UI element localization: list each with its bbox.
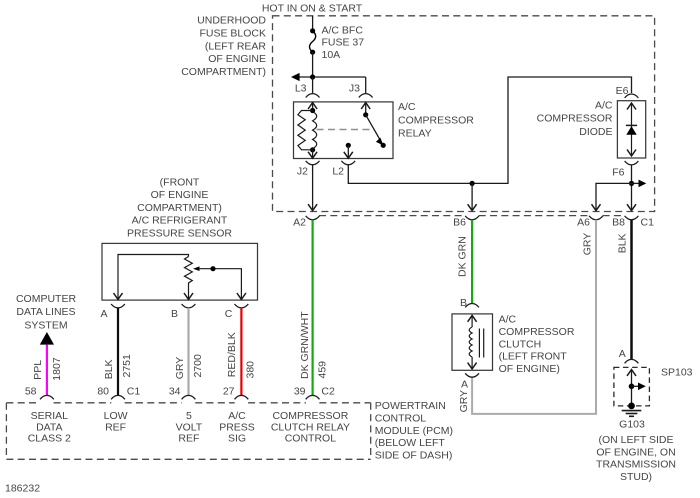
svg-text:(LEFT FRONT: (LEFT FRONT <box>499 351 568 363</box>
svg-text:COMPUTER: COMPUTER <box>16 293 77 305</box>
svg-text:PRESSURE SENSOR: PRESSURE SENSOR <box>127 228 232 240</box>
svg-text:COMPRESSOR: COMPRESSOR <box>272 410 348 422</box>
terminal 27 <box>235 395 249 399</box>
svg-text:A6: A6 <box>577 217 590 229</box>
relay switch arrow up to J3 <box>365 103 367 115</box>
relay coil arrow down to J2 <box>312 150 314 158</box>
wire L2 to diode E6 loop <box>348 77 631 183</box>
svg-text:PRESS: PRESS <box>219 421 255 433</box>
svg-text:10A: 10A <box>322 49 341 61</box>
svg-text:DATA: DATA <box>36 421 62 433</box>
relay U1 box <box>294 102 394 159</box>
svg-text:B6: B6 <box>453 217 466 229</box>
svg-text:B8: B8 <box>612 217 625 229</box>
svg-text:CLUTCH: CLUTCH <box>499 338 542 350</box>
arrow to computer data lines system <box>40 332 54 345</box>
wire from hot feed to fuse <box>312 16 314 31</box>
svg-text:CONTROL: CONTROL <box>285 433 336 445</box>
svg-text:PPL: PPL <box>32 360 44 380</box>
arrow to other circuits (left) <box>291 73 300 81</box>
svg-text:C1: C1 <box>641 217 655 229</box>
svg-text:FUSE 37: FUSE 37 <box>322 37 365 49</box>
svg-text:OF ENGINE: OF ENGINE <box>151 189 209 201</box>
wire GRY A6 to clutch A <box>472 220 596 414</box>
svg-text:A/C: A/C <box>228 410 246 422</box>
svg-text:E6: E6 <box>616 85 629 97</box>
wire down to B6 <box>471 183 473 209</box>
relay label A/C COMPRESSOR RELAY <box>398 101 474 140</box>
PCM pin function labels <box>28 410 350 445</box>
diode internal symbol <box>626 103 637 156</box>
svg-text:B: B <box>171 308 178 320</box>
wire down to L3 <box>312 77 314 93</box>
node junction dot below F6 <box>629 181 634 186</box>
terminal A of sensor <box>111 304 125 308</box>
svg-text:SIDE OF DASH): SIDE OF DASH) <box>375 450 453 462</box>
terminal A of splice <box>625 359 639 363</box>
svg-text:CLASS 2: CLASS 2 <box>28 433 71 445</box>
svg-text:COMPRESSOR: COMPRESSOR <box>499 326 575 338</box>
terminal E6 <box>625 94 639 98</box>
svg-text:COMPRESSOR: COMPRESSOR <box>398 114 474 126</box>
terminal J3 <box>359 94 373 98</box>
svg-text:COMPARTMENT): COMPARTMENT) <box>181 66 266 78</box>
svg-text:LOW: LOW <box>104 410 128 422</box>
relay switch blade <box>363 112 368 117</box>
svg-text:RED/BLK: RED/BLK <box>226 332 238 377</box>
svg-text:POWERTRAIN: POWERTRAIN <box>375 400 446 412</box>
svg-text:(LEFT REAR: (LEFT REAR <box>205 40 266 52</box>
relay coil arrow up to L3 <box>312 103 314 111</box>
svg-text:459: 459 <box>317 361 329 379</box>
svg-text:B: B <box>460 297 467 309</box>
svg-text:A/C: A/C <box>595 99 613 111</box>
terminal 80 C1 <box>111 395 125 399</box>
svg-text:FUSE BLOCK: FUSE BLOCK <box>199 28 266 40</box>
svg-text:BLK: BLK <box>616 233 628 253</box>
terminal 58 <box>40 395 54 399</box>
svg-text:C1: C1 <box>127 385 141 397</box>
svg-text:34: 34 <box>169 385 181 397</box>
node junction dot above L3 <box>310 74 315 79</box>
terminal C of sensor <box>235 304 249 308</box>
svg-text:A: A <box>619 348 626 360</box>
svg-text:5: 5 <box>186 410 192 422</box>
diode label A/C COMPRESSOR DIODE <box>537 99 613 138</box>
terminal A2 <box>306 216 320 220</box>
svg-text:A/C: A/C <box>398 101 416 113</box>
wire PPL 1807 to PCM 58 <box>46 345 48 396</box>
svg-text:39: 39 <box>294 385 306 397</box>
svg-text:1807: 1807 <box>51 357 63 381</box>
fuse F37 A/C BFC 10A <box>310 28 316 55</box>
svg-text:RELAY: RELAY <box>398 128 432 140</box>
terminal B6 <box>465 216 479 220</box>
svg-text:DK GRN/WHT: DK GRN/WHT <box>299 311 311 379</box>
svg-text:A2: A2 <box>293 217 306 229</box>
svg-text:OF ENGINE): OF ENGINE) <box>499 363 560 375</box>
svg-text:L3: L3 <box>295 82 307 94</box>
svg-text:J3: J3 <box>349 82 360 94</box>
svg-text:UNDERHOOD: UNDERHOOD <box>197 15 266 27</box>
svg-text:L2: L2 <box>332 166 344 178</box>
svg-text:2751: 2751 <box>121 354 133 378</box>
svg-text:CONTROL: CONTROL <box>375 412 426 424</box>
arrow to other circuits (right) <box>632 182 641 184</box>
svg-text:DATA LINES: DATA LINES <box>16 306 75 318</box>
wire DK GRN/WHT 459 A2 to PCM 39 <box>312 220 314 396</box>
svg-text:COMPARTMENT): COMPARTMENT) <box>137 202 222 214</box>
terminal B of clutch <box>465 304 479 308</box>
splice SP103 dashed box <box>614 367 650 406</box>
wire down to J3 <box>365 77 367 93</box>
underhood fuse block dashed box <box>273 16 655 212</box>
wire branch to A6 <box>596 183 632 209</box>
svg-text:C2: C2 <box>321 385 335 397</box>
terminal J2 <box>306 161 320 165</box>
clutch coil internal <box>468 315 484 369</box>
compressor clutch box <box>452 314 493 370</box>
fuse label A/C BFC FUSE 37 10A <box>322 25 365 61</box>
svg-text:MODULE (PCM): MODULE (PCM) <box>375 425 453 437</box>
wire F6 down to B8 <box>631 165 633 210</box>
svg-text:VOLT: VOLT <box>176 421 203 433</box>
svg-text:(BELOW LEFT: (BELOW LEFT <box>375 437 446 449</box>
svg-text:186232: 186232 <box>5 483 40 495</box>
svg-text:DIODE: DIODE <box>579 126 612 138</box>
svg-text:(FRONT: (FRONT <box>160 176 200 188</box>
svg-text:STUD): STUD) <box>620 471 652 483</box>
wire GRY 2700 sensor B to PCM 34 <box>187 308 189 396</box>
svg-text:CLUTCH RELAY: CLUTCH RELAY <box>271 421 350 433</box>
sensor internal potentiometer <box>114 255 246 300</box>
terminal F6 <box>625 161 639 165</box>
svg-text:SIG: SIG <box>228 433 246 445</box>
arrow to other circuits from splice <box>632 385 640 387</box>
terminal A6 <box>589 216 603 220</box>
diode D1 box <box>617 101 645 158</box>
pressure sensor label <box>127 176 232 239</box>
svg-text:SYSTEM: SYSTEM <box>24 320 67 332</box>
svg-text:A/C: A/C <box>499 314 517 326</box>
svg-text:A: A <box>461 379 468 391</box>
terminal A of clutch <box>465 373 479 377</box>
terminal B8 <box>625 216 639 220</box>
computer data lines label <box>16 293 77 332</box>
svg-text:(ON LEFT SIDE: (ON LEFT SIDE <box>598 434 673 446</box>
terminal L3 <box>306 94 320 98</box>
svg-text:TRANSMISSION: TRANSMISSION <box>596 459 676 471</box>
terminal 39 C2 <box>306 395 320 399</box>
svg-text:HOT IN ON & START: HOT IN ON & START <box>262 3 363 15</box>
clutch label A/C COMPRESSOR CLUTCH <box>499 314 575 376</box>
wire RED/BLK 380 sensor C to PCM 27 <box>240 308 242 396</box>
svg-text:COMPRESSOR: COMPRESSOR <box>537 113 613 125</box>
relay mechanical dashed link <box>317 129 372 131</box>
svg-text:GRY: GRY <box>458 390 470 413</box>
svg-text:DK GRN: DK GRN <box>456 236 468 277</box>
svg-text:GRY: GRY <box>581 233 593 256</box>
connector C1 dashed line <box>319 215 625 217</box>
svg-text:SERIAL: SERIAL <box>31 410 69 422</box>
svg-text:27: 27 <box>223 385 235 397</box>
svg-text:REF: REF <box>105 421 126 433</box>
relay coil <box>298 108 317 152</box>
svg-text:SP103: SP103 <box>661 366 693 378</box>
svg-text:OF ENGINE, ON: OF ENGINE, ON <box>596 446 675 458</box>
relay L2 contact arrow down <box>346 143 351 148</box>
svg-text:58: 58 <box>25 385 37 397</box>
terminal L2 <box>341 161 355 165</box>
svg-text:OF ENGINE: OF ENGINE <box>208 53 266 65</box>
svg-text:2700: 2700 <box>192 354 204 378</box>
wire junction bus at y77 <box>293 76 366 78</box>
wire J2 down to A2 <box>312 165 314 210</box>
node splice dot <box>629 384 635 390</box>
ground G103 <box>628 403 635 410</box>
pressure sensor box <box>102 243 258 300</box>
svg-text:J2: J2 <box>297 166 308 178</box>
svg-text:GRY: GRY <box>174 357 186 380</box>
svg-text:A: A <box>100 308 107 320</box>
svg-text:C: C <box>225 308 233 320</box>
terminal 34 <box>182 395 196 399</box>
svg-text:F6: F6 <box>612 167 624 179</box>
svg-text:A/C BFC: A/C BFC <box>322 25 364 37</box>
PCM dashed box <box>6 403 370 460</box>
PCM label POWERTRAIN CONTROL MODULE <box>375 400 453 462</box>
svg-text:A/C REFRIGERANT: A/C REFRIGERANT <box>132 215 228 227</box>
svg-text:BLK: BLK <box>103 359 115 379</box>
terminal B of sensor <box>182 304 196 308</box>
node junction dot above B6 <box>470 181 475 186</box>
wire fuse to junction <box>312 52 314 77</box>
wire BLK 2751 sensor A to PCM 80 <box>117 308 119 396</box>
wire DK GRN B6 to clutch B <box>471 220 473 303</box>
underhood fuse block label <box>181 15 266 78</box>
svg-text:380: 380 <box>245 361 257 379</box>
splice internal wire with arrow up <box>631 370 633 406</box>
svg-text:G103: G103 <box>619 419 645 431</box>
svg-text:80: 80 <box>97 385 109 397</box>
ground location label <box>596 434 676 483</box>
wire BLK B8 to SP103 <box>630 220 633 359</box>
svg-text:REF: REF <box>178 433 199 445</box>
